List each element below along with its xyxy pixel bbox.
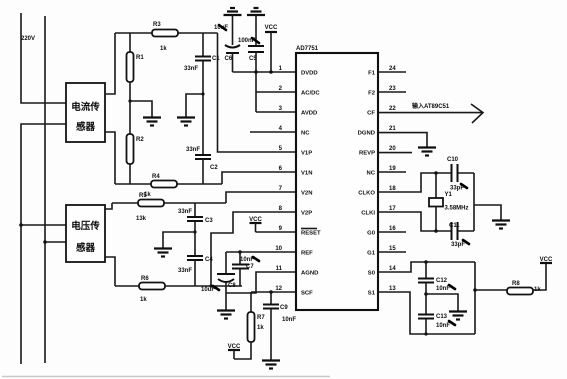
wire R7 to VCC	[234, 342, 251, 359]
capacitor C5	[248, 46, 264, 62]
svg-text:C8: C8	[228, 283, 236, 289]
svg-text:20: 20	[389, 146, 396, 152]
wire voltage sensor input N	[45, 241, 66, 243]
power VCC at R7	[228, 344, 241, 359]
svg-text:感器: 感器	[76, 242, 96, 254]
svg-text:RESET: RESET	[301, 231, 321, 237]
wire C13 top	[425, 294, 427, 315]
svg-text:3: 3	[279, 106, 283, 112]
wire C1 column top	[202, 33, 204, 56]
svg-text:Y1: Y1	[445, 192, 453, 198]
value polarity mark of C8	[213, 286, 219, 290]
svg-text:1: 1	[279, 66, 283, 72]
wire R8 to VCC	[533, 263, 546, 290]
svg-text:C7: C7	[246, 264, 254, 270]
svg-text:C9: C9	[280, 305, 288, 311]
svg-text:AC/DC: AC/DC	[301, 91, 320, 97]
wire pin 19 stub	[378, 171, 406, 173]
svg-text:CLKI: CLKI	[361, 211, 375, 217]
svg-text:11: 11	[276, 266, 283, 272]
svg-text:R1: R1	[136, 55, 144, 61]
svg-text:R7: R7	[257, 315, 265, 321]
wire C5 down through pin2 to pin3	[255, 52, 257, 112]
svg-text:S1: S1	[368, 291, 376, 297]
wire to pin 10 REF	[226, 251, 296, 253]
resistor R7	[248, 312, 266, 342]
svg-text:REVP: REVP	[359, 151, 375, 157]
svg-text:23: 23	[389, 86, 396, 92]
svg-text:C3: C3	[205, 218, 213, 224]
svg-text:19: 19	[389, 166, 396, 172]
ground A	[143, 118, 161, 126]
wire ground to C6	[232, 15, 234, 45]
ground G	[492, 221, 510, 229]
wire crystal right column	[473, 173, 475, 231]
svg-text:V1N: V1N	[301, 171, 312, 177]
wire to R8	[475, 289, 507, 291]
capacitor C12	[418, 278, 448, 284]
svg-text:AVDD: AVDD	[301, 111, 317, 117]
value polarity mark of C12	[449, 285, 455, 289]
svg-text:24: 24	[389, 66, 396, 72]
wire middle rail to ground H	[426, 294, 458, 311]
resistor R4	[151, 174, 177, 188]
ground C	[154, 249, 172, 257]
wire to pin 8 V2P	[211, 212, 296, 286]
pin label RESET	[301, 229, 321, 237]
svg-text:10: 10	[275, 246, 282, 252]
resistor R2	[127, 134, 145, 164]
svg-text:C13: C13	[436, 314, 448, 320]
junction	[269, 290, 273, 294]
wire R1 bottom to R2 top	[129, 82, 131, 134]
svg-text:R4: R4	[152, 174, 160, 180]
svg-text:7: 7	[279, 186, 283, 192]
value polarity mark of C10	[461, 184, 467, 188]
wire V1N bottom rail	[115, 183, 222, 185]
wire C8 bottom	[225, 283, 227, 286]
op-amp U1 AD7751 body	[296, 46, 378, 310]
svg-text:6: 6	[279, 166, 283, 172]
svg-text:8: 8	[279, 206, 283, 212]
wire CF output arrow to AT89C51	[378, 102, 483, 123]
wire crystal bottom rail right	[458, 230, 475, 232]
resistor R1	[127, 52, 145, 82]
resistor R6	[139, 276, 165, 290]
wire REF to C7	[239, 252, 241, 265]
wire to pin 9	[256, 231, 297, 233]
capacitor C10	[447, 157, 459, 182]
junction	[193, 230, 196, 233]
wire mains rail N	[44, 16, 46, 363]
svg-text:14: 14	[389, 266, 396, 272]
svg-text:R8: R8	[512, 281, 520, 287]
value polarity mark of C11	[463, 240, 469, 244]
junction	[254, 70, 258, 74]
wire to pin 3 AVDD	[256, 111, 296, 113]
svg-text:CF: CF	[367, 111, 375, 117]
svg-text:15: 15	[389, 246, 396, 252]
svg-text:AGND: AGND	[301, 271, 318, 277]
wire SCF to R7	[250, 292, 252, 312]
junction	[201, 92, 204, 95]
wire centre to C2	[202, 94, 204, 155]
svg-text:33nF: 33nF	[184, 66, 198, 72]
svg-text:10nF: 10nF	[436, 286, 450, 292]
wire to pin 2 ACDC	[256, 91, 296, 93]
wire pin 17 CLKI to crystal	[378, 212, 452, 231]
svg-text:10nF: 10nF	[282, 317, 296, 323]
ground E	[262, 361, 280, 369]
svg-text:10uF: 10uF	[201, 287, 215, 293]
wire centre to C4	[194, 232, 196, 256]
svg-text:F2: F2	[368, 91, 376, 97]
wire V1P top rail	[115, 32, 218, 34]
svg-text:33nF: 33nF	[178, 209, 192, 215]
svg-text:3.58MHz: 3.58MHz	[445, 206, 469, 212]
svg-text:V2P: V2P	[301, 211, 312, 217]
svg-text:C12: C12	[436, 278, 448, 284]
svg-text:C11: C11	[449, 223, 460, 229]
wire SCF to C9	[270, 292, 272, 305]
svg-text:18: 18	[389, 186, 396, 192]
wire to pin 7 V2N	[226, 192, 296, 203]
svg-text:1k: 1k	[140, 297, 147, 303]
wire REF to C8	[225, 252, 227, 274]
wire ground stem D	[225, 286, 227, 310]
svg-text:DVDD: DVDD	[301, 71, 318, 77]
capacitor C1	[195, 56, 220, 62]
svg-text:CLKO: CLKO	[358, 191, 375, 197]
svg-text:C4: C4	[205, 257, 213, 263]
svg-text:9: 9	[279, 226, 283, 232]
svg-text:S0: S0	[368, 271, 376, 277]
wire crystal mid tap to ground G	[474, 205, 501, 220]
wire C3 to centre	[194, 221, 196, 232]
wire pin 15 stub	[378, 251, 406, 253]
svg-text:G0: G0	[367, 231, 376, 237]
svg-text:AD7751: AD7751	[296, 46, 319, 52]
wire centre tap to ground C	[163, 232, 195, 248]
svg-text:电压传: 电压传	[71, 220, 100, 232]
wire pin 20 REVP stub	[378, 152, 412, 154]
wire C1 to centre	[202, 61, 204, 95]
svg-text:V1P: V1P	[301, 151, 312, 157]
capacitor C9	[263, 305, 288, 312]
wire pin 18 CLKO to crystal	[378, 173, 452, 192]
wire to pin 6 V1N	[222, 172, 296, 184]
value polarity mark of C13	[449, 321, 455, 325]
power VCC at pin 9 RESET	[249, 217, 262, 232]
svg-text:R6: R6	[141, 276, 149, 282]
junction	[473, 288, 477, 292]
junction	[269, 70, 273, 74]
svg-text:NC: NC	[301, 131, 310, 137]
wire C13 bottom	[425, 319, 427, 335]
wire pin 12 SCF	[251, 291, 296, 293]
wire voltage sensor top output	[105, 203, 112, 209]
svg-text:33pF: 33pF	[451, 242, 465, 248]
svg-text:C1: C1	[212, 56, 220, 62]
svg-text:C10: C10	[447, 157, 459, 163]
wire crystal stem top	[435, 173, 437, 198]
wire R1 top	[129, 33, 131, 52]
current sensor box	[66, 83, 105, 142]
junction	[209, 284, 212, 287]
junction	[128, 99, 131, 102]
svg-text:12: 12	[275, 286, 282, 292]
wire V2 top rail	[112, 202, 226, 204]
capacitor C13	[418, 314, 448, 320]
svg-text:DGND: DGND	[358, 131, 375, 137]
wire pin 21 DGND to ground	[378, 133, 427, 147]
svg-text:NC: NC	[366, 171, 375, 177]
wire right column of S network	[474, 262, 476, 334]
junction	[43, 240, 47, 244]
wire C2 bottom	[202, 159, 204, 184]
ground F	[418, 148, 436, 156]
svg-text:13: 13	[389, 286, 396, 292]
svg-text:G1: G1	[367, 251, 376, 257]
wire C4 bottom	[194, 260, 196, 286]
wire C9 to ground E	[270, 309, 272, 361]
junction	[238, 250, 242, 254]
voltage sensor box	[66, 205, 105, 262]
wire voltage sensor bottom output	[105, 257, 115, 286]
svg-text:13k: 13k	[136, 216, 147, 222]
capacitor C6 polarized	[225, 45, 241, 62]
svg-text:10nF: 10nF	[436, 323, 450, 329]
wire to pin 5 V1P	[218, 33, 297, 152]
resistor R8	[507, 281, 533, 295]
wire burden centre tap to ground	[130, 101, 152, 117]
svg-text:R3: R3	[153, 22, 161, 28]
svg-text:C6: C6	[225, 56, 233, 62]
svg-text:16: 16	[389, 226, 396, 232]
junction	[434, 171, 438, 175]
wire pin 4 NC stub	[250, 131, 296, 133]
capacitor C2	[195, 155, 218, 171]
svg-text:2: 2	[279, 86, 283, 92]
junction	[434, 229, 438, 233]
svg-text:21: 21	[389, 126, 396, 132]
capacitor C11	[449, 222, 460, 240]
ground inverted above C5	[247, 8, 265, 15]
wire R2 bottom	[129, 164, 131, 184]
power VCC bottom right	[540, 257, 553, 263]
wire mains rail L top	[21, 13, 66, 103]
scan smudge bottom edge	[2, 376, 330, 378]
capacitor C4	[187, 256, 213, 263]
resistor R5	[138, 193, 164, 207]
svg-text:1k: 1k	[160, 46, 167, 52]
svg-text:33nF: 33nF	[178, 268, 192, 274]
junction	[19, 223, 23, 227]
wire crystal top rail right	[458, 172, 475, 174]
svg-text:SCF: SCF	[301, 291, 313, 297]
junction	[424, 332, 427, 335]
wire mains rail L bottom	[21, 124, 66, 364]
wire current sensor bottom output	[105, 132, 115, 184]
wire centre tap to ground B	[186, 94, 203, 117]
wire pin 14 S0 top rail	[378, 262, 475, 272]
wire C3 top	[194, 203, 196, 217]
svg-text:C2: C2	[210, 165, 218, 171]
svg-text:22: 22	[389, 106, 396, 112]
ground D	[217, 311, 235, 319]
capacitor C7	[232, 264, 254, 270]
svg-text:R5: R5	[139, 193, 147, 199]
value polarity mark of C7	[253, 257, 259, 261]
junction	[424, 260, 428, 264]
wire to pin 1 DVDD	[233, 71, 297, 73]
wire voltage sensor input L	[21, 224, 66, 226]
wire pin 24 F1 stub	[378, 71, 406, 73]
svg-text:电流传: 电流传	[71, 101, 100, 113]
value polarity mark of C5	[252, 38, 259, 43]
wire crystal stem bottom	[435, 207, 437, 232]
wire pin 13 S1 bottom rail	[378, 292, 475, 334]
resistor R3	[152, 22, 178, 37]
svg-text:REF: REF	[301, 251, 313, 257]
svg-text:33pF: 33pF	[450, 186, 464, 192]
wire pin 16 stub	[378, 231, 406, 233]
svg-text:输入AT89C51: 输入AT89C51	[412, 102, 450, 110]
wire C7 bottom	[239, 269, 241, 287]
svg-text:V2N: V2N	[301, 191, 312, 197]
ground inverted above C6	[224, 8, 242, 15]
svg-text:VCC: VCC	[265, 25, 278, 31]
wire pin 23 F2 stub	[378, 91, 406, 93]
wire pin 11 AGND to ground	[226, 272, 296, 293]
svg-text:R2: R2	[136, 137, 144, 143]
power VCC top	[265, 25, 278, 72]
ground B	[177, 118, 195, 126]
crystal Y1	[429, 192, 453, 207]
ground H	[449, 312, 467, 320]
wire C6 to pin1 wire	[232, 53, 234, 72]
wire current sensor top output	[105, 33, 115, 94]
wire C12 top	[425, 262, 427, 279]
capacitor C8 polarized	[217, 274, 236, 289]
svg-text:220V: 220V	[21, 36, 35, 42]
svg-text:33nF: 33nF	[186, 147, 200, 153]
wire ground to C5	[255, 15, 257, 46]
svg-text:F1: F1	[368, 71, 376, 77]
svg-text:5: 5	[279, 146, 283, 152]
svg-text:4: 4	[279, 126, 283, 132]
value polarity mark of C6	[219, 25, 226, 30]
capacitor C3	[187, 217, 213, 224]
svg-text:1k: 1k	[257, 325, 264, 331]
wire V2P bottom rail	[115, 285, 242, 287]
junction	[424, 292, 428, 296]
svg-text:17: 17	[389, 206, 396, 212]
wire C12 bottom	[425, 283, 427, 295]
svg-text:感器: 感器	[76, 121, 96, 133]
